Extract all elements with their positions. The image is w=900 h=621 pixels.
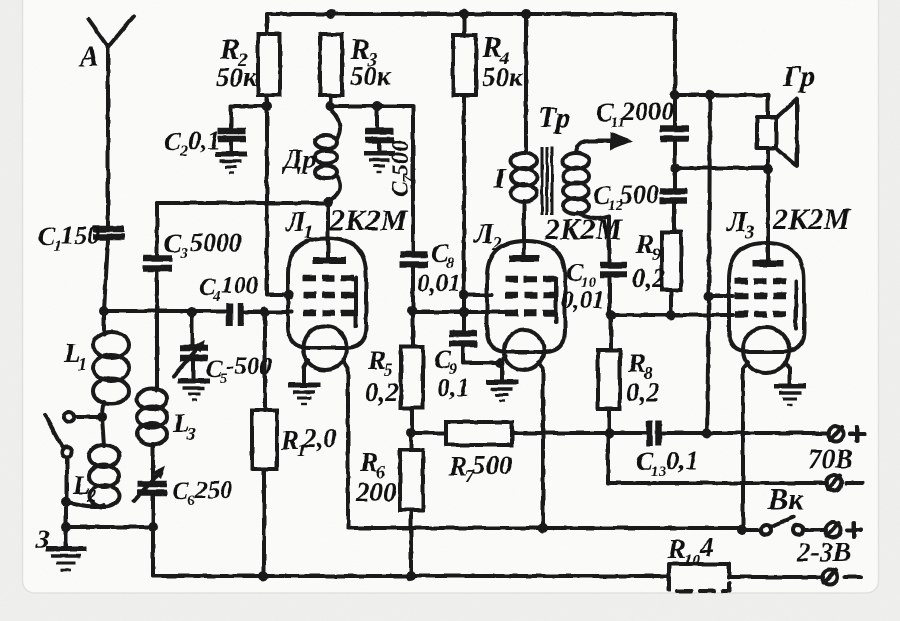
label C8 0,01 xyxy=(417,239,461,297)
label C11 2000 xyxy=(596,97,674,131)
wire grid2 stub L3 xyxy=(709,294,733,298)
inductor L1 xyxy=(93,311,129,417)
node C11 bottom junction xyxy=(670,163,680,173)
label L2 xyxy=(72,470,96,506)
resistor R5 xyxy=(401,347,423,433)
node L1 L2 junction xyxy=(97,412,107,422)
wire grid2 stub L2 xyxy=(464,293,492,297)
wire grid line to L2 xyxy=(412,310,505,314)
speaker Gr xyxy=(757,95,797,169)
tube L2 grid right connector xyxy=(554,279,558,322)
node Tr primary top xyxy=(521,9,531,19)
resistor R7 xyxy=(411,422,647,445)
wire L3 anode stem xyxy=(766,169,770,260)
transformer Tr secondary winding xyxy=(563,141,609,218)
transformer Tr primary lead xyxy=(524,14,528,150)
node grid3 junction xyxy=(606,310,616,320)
label C4 100 xyxy=(199,272,259,305)
wire secondary to C10 xyxy=(607,216,611,262)
node C6 ground-line junction xyxy=(148,522,158,532)
node filament bus switch junction xyxy=(737,525,747,535)
node R8 minus branch junction xyxy=(604,428,614,438)
capacitor C12 xyxy=(660,191,687,232)
node R2 C2 junction xyxy=(262,101,272,111)
node R2 grid wall junction xyxy=(284,290,294,300)
tube L1 filament left to ground xyxy=(288,360,320,404)
label C6 250 xyxy=(172,477,233,509)
label C5 500 xyxy=(206,353,272,387)
wire filament bus to switch xyxy=(742,528,761,532)
ground under C2 xyxy=(215,154,247,173)
wire anode link line xyxy=(675,166,768,170)
node L2 filament bus xyxy=(538,523,548,533)
terminal minus23 xyxy=(823,570,862,585)
node C9 cathode junction xyxy=(495,358,505,368)
antenna A symbol xyxy=(88,16,134,226)
resistor R3 xyxy=(320,34,342,106)
tube L3 grid row1 xyxy=(735,278,786,285)
node L2 switch junction xyxy=(61,497,71,507)
tube L2 grid row1 xyxy=(505,276,556,283)
node R4 grid2 junction xyxy=(459,290,469,300)
transformer Tr core xyxy=(542,147,552,215)
wire L1 filament right to bus xyxy=(343,360,742,528)
label C1 150 xyxy=(38,221,100,255)
label R10 4 xyxy=(667,532,714,569)
node C5 junction xyxy=(187,307,197,317)
tube L3 grid row2 xyxy=(735,293,786,300)
node C7 top xyxy=(372,101,382,111)
node choke bottom anode junction xyxy=(323,197,333,207)
wire L2 filament right to bus xyxy=(539,362,543,528)
wire tank line to C4 xyxy=(104,309,227,313)
switch antenna selector xyxy=(45,412,74,502)
capacitor C8 xyxy=(400,255,428,348)
label R7 500 xyxy=(448,450,513,486)
node R3 top xyxy=(326,9,336,19)
label R9 0,2 xyxy=(632,229,666,293)
wire top right link xyxy=(675,93,768,97)
resistor R10 dashed xyxy=(669,564,823,591)
resistor R6 xyxy=(400,433,423,576)
node L3 grid2 junction xyxy=(704,291,714,301)
label C9 0,1 xyxy=(434,345,470,402)
capacitor C11 xyxy=(660,95,689,188)
capacitor C6 variable xyxy=(134,466,167,576)
tube L3 filament right to ground xyxy=(774,362,806,405)
node R1 bottom xyxy=(258,571,268,581)
label C13 0,1 xyxy=(636,446,699,480)
label R2 50k xyxy=(216,33,258,92)
node C11 top junction xyxy=(670,90,680,100)
ground under C7 xyxy=(364,153,395,172)
wire ground line to C6 xyxy=(66,525,153,529)
node R5 R6 R7 junction xyxy=(406,428,416,438)
wire supply vertical xyxy=(707,95,710,433)
inductor L3 xyxy=(137,389,167,482)
wire C3 line to anode xyxy=(157,201,328,205)
label C10 0,01 xyxy=(561,258,605,314)
capacitor C5 variable xyxy=(174,312,208,379)
wire anode stem L1 tube xyxy=(326,202,330,257)
resistor R8 xyxy=(598,315,620,433)
label R3 50k xyxy=(349,33,392,91)
ground (main З) xyxy=(46,527,86,570)
wire R3 to C8 corner xyxy=(330,106,413,251)
wire down to ground node xyxy=(64,502,68,527)
label L1 xyxy=(63,338,87,374)
inductor L2 xyxy=(67,417,119,507)
label Л1 xyxy=(285,206,314,243)
resistor R9 xyxy=(662,232,681,315)
node supply top bus junction xyxy=(705,90,715,100)
label Л3 xyxy=(726,206,755,243)
wire junction to switch contact xyxy=(74,415,102,419)
ground under L2 cathode xyxy=(486,363,518,401)
wire top supply bus xyxy=(267,14,675,95)
label Л2 xyxy=(473,218,502,255)
wire bottom minus bus xyxy=(153,527,669,576)
ground under C5 xyxy=(178,381,210,400)
tube L2 grid row3 xyxy=(505,310,556,317)
tube L1 grid row3 xyxy=(303,310,354,317)
capacitor C13 xyxy=(650,421,659,446)
node antenna tank junction xyxy=(99,306,109,316)
label L3 xyxy=(172,408,196,444)
switch Vk xyxy=(761,517,826,535)
label R4 50k xyxy=(481,31,524,92)
terminal minus70 xyxy=(827,476,863,491)
capacitor C2 xyxy=(218,106,267,152)
label R6 200 xyxy=(355,447,397,507)
node R3 choke junction xyxy=(325,101,335,111)
transformer Tr primary winding xyxy=(511,153,537,256)
label R8 0,2 xyxy=(626,348,660,407)
tube L1 envelope xyxy=(288,238,366,370)
label C2 0,1 xyxy=(164,126,221,160)
node C4 R1 R2 grid junction xyxy=(260,307,270,317)
wire grid line to L3 xyxy=(611,313,733,317)
node R6 bottom xyxy=(406,571,416,581)
capacitor C9 xyxy=(449,334,500,364)
node ground junction xyxy=(61,522,71,532)
capacitor C3 xyxy=(143,203,172,390)
resistor R1 xyxy=(252,312,277,576)
tube L1 grid row2 xyxy=(303,292,354,299)
tube L2 anode xyxy=(509,255,539,262)
choke Dr xyxy=(315,107,340,202)
wire plus70 line xyxy=(661,431,829,435)
label C12 500 xyxy=(593,180,659,214)
tube L1 anode xyxy=(313,257,346,264)
wire minus70 line xyxy=(608,433,827,483)
resistor R4 xyxy=(453,14,476,330)
capacitor C1 xyxy=(93,229,124,311)
capacitor C4 xyxy=(230,303,293,326)
node L3 anode junction xyxy=(763,164,773,174)
tube L3 grid right connector xyxy=(794,281,798,328)
tube L3 anode xyxy=(752,260,784,267)
tube L1 grid right connector xyxy=(354,278,358,326)
label R1 2,0 xyxy=(280,423,337,460)
node C8 R5 junction xyxy=(407,306,417,316)
node R4 grid line junction xyxy=(459,307,469,317)
tube L2 grid row2 xyxy=(505,292,556,299)
tube L1 grid row1 xyxy=(303,275,354,282)
capacitor C10 xyxy=(600,265,627,315)
node R9 bottom junction xyxy=(666,310,676,320)
arrow output to detector xyxy=(590,132,633,150)
capacitor C7 xyxy=(365,106,394,151)
terminal plus70 xyxy=(829,427,865,442)
tube L3 filament left to switch xyxy=(743,362,748,530)
node R4 top xyxy=(459,9,469,19)
tube L3 envelope xyxy=(729,243,804,373)
terminal plus23 xyxy=(826,523,862,538)
label C7 500 vertical xyxy=(388,140,417,197)
label C3 5000 xyxy=(164,228,242,262)
node supply vertical junction xyxy=(702,428,712,438)
tube L2 filament left lead xyxy=(500,356,506,363)
resistor R2 xyxy=(258,34,289,295)
tube L2 envelope xyxy=(487,241,565,370)
tube L3 grid row3 xyxy=(735,311,786,318)
label R5 0,2 xyxy=(365,345,399,407)
